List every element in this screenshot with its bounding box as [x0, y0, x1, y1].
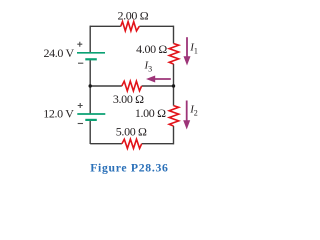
resistor 2.00 ohm (top) — [121, 22, 140, 31]
svg-text:1: 1 — [194, 47, 198, 56]
wire bottom — [90, 143, 173, 145]
battery 24.0 V — [77, 42, 105, 64]
current arrow I1 — [184, 37, 198, 65]
svg-text:24.0 V: 24.0 V — [43, 46, 74, 60]
node right-middle junction — [172, 84, 175, 87]
svg-text:3: 3 — [148, 65, 152, 74]
svg-text:Figure P28.36: Figure P28.36 — [90, 162, 168, 175]
wire middle — [90, 85, 173, 87]
battery 12.0 V — [77, 103, 105, 124]
wire left — [89, 26, 91, 144]
resistor 4.00 ohm (right top) — [169, 44, 179, 65]
current arrow I2 — [183, 101, 198, 130]
wire top — [90, 25, 173, 27]
resistor 5.00 ohm (bottom) — [122, 139, 142, 148]
svg-text:12.0 V: 12.0 V — [43, 107, 74, 121]
svg-text:2.00 Ω: 2.00 Ω — [117, 9, 148, 23]
current arrow I3 — [144, 60, 171, 83]
svg-text:2: 2 — [194, 109, 198, 118]
svg-text:5.00 Ω: 5.00 Ω — [116, 125, 147, 139]
wire right — [173, 26, 175, 145]
svg-text:3.00 Ω: 3.00 Ω — [113, 92, 144, 106]
resistor 1.00 ohm (right bottom) — [169, 106, 179, 126]
svg-text:1.00 Ω: 1.00 Ω — [135, 106, 166, 120]
svg-text:4.00 Ω: 4.00 Ω — [136, 42, 167, 56]
resistor 3.00 ohm (middle) — [122, 81, 142, 91]
node left-middle junction — [89, 84, 92, 87]
